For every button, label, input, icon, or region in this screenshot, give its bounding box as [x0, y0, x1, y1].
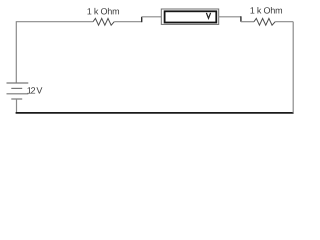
label 12V	[27, 87, 42, 93]
wire bottom rail	[16, 112, 294, 114]
battery V1 plate short bottom	[11, 98, 22, 100]
wire left vertical	[15, 21, 17, 83]
wire voltmeter to step	[219, 16, 241, 18]
wire step to R2	[241, 21, 254, 23]
battery V1 plate long top	[7, 82, 29, 84]
voltmeter U1 inner box	[165, 11, 217, 22]
wire right vertical	[292, 22, 294, 113]
battery V1 plate long	[7, 93, 29, 95]
wire step to voltmeter	[142, 16, 162, 18]
wire battery bottom vertical	[16, 99, 18, 113]
wire step up	[141, 17, 143, 22]
wire step down	[240, 16, 242, 21]
resistor R2 zigzag	[254, 18, 275, 25]
resistor R1 zigzag	[93, 18, 114, 25]
label R1 1 k Ohm	[87, 8, 119, 15]
label R2 1 k Ohm	[250, 7, 282, 14]
wire R1 to step	[114, 21, 141, 23]
battery V1 plate short	[11, 87, 22, 89]
wire top-right horizontal	[275, 21, 293, 23]
wire top-left horizontal	[16, 21, 93, 23]
voltmeter V symbol	[206, 13, 210, 18]
voltmeter U1 outer box	[161, 9, 218, 24]
